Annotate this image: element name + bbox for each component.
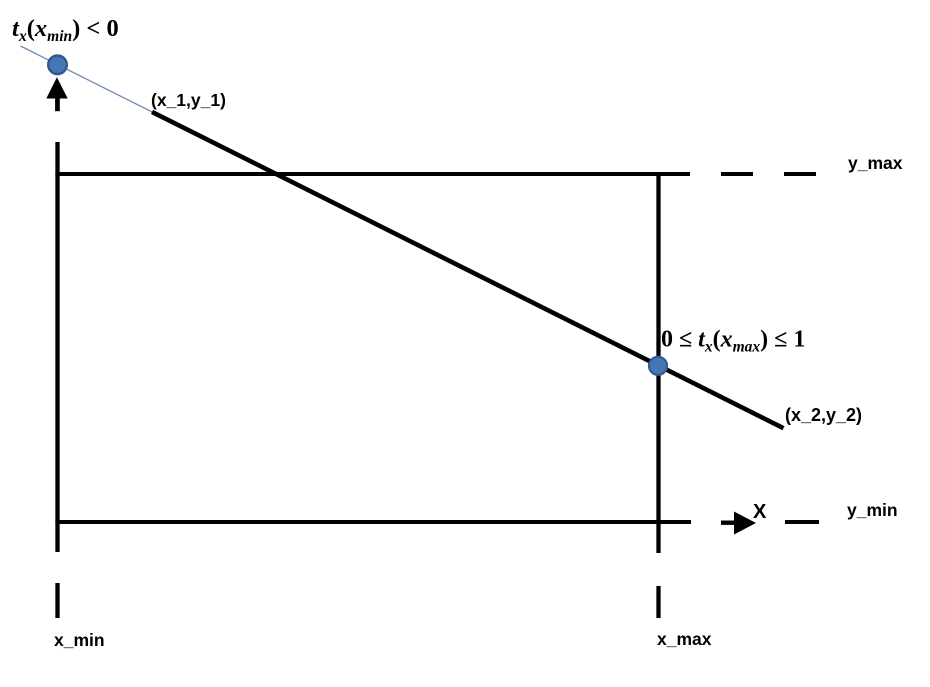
up arrow pointing at clipped intersection point on x_min xyxy=(46,77,67,111)
clip window top edge y_max (horizontal line) xyxy=(55,172,690,176)
blue point: intersection with x = x_max (0 <= t_x(x_max) <= 1) xyxy=(649,357,667,375)
svg-text:X: X xyxy=(753,501,767,523)
wire: thin blue extension of segment beyond window (t < 0 part) xyxy=(21,46,153,112)
clip window bottom edge y_min (horizontal line) xyxy=(55,520,691,524)
blue point: intersection with x = x_min extension (t_x(x_min) < 0) xyxy=(48,56,67,75)
svg-text:x_max: x_max xyxy=(657,629,712,649)
dashed continuation of y_max line xyxy=(721,172,816,176)
dashed continuation of x_max line below window xyxy=(656,586,660,618)
svg-text:(x_2,y_2): (x_2,y_2) xyxy=(785,405,862,425)
x-axis direction arrow near y_min dashed line xyxy=(721,512,756,535)
svg-text:y_max: y_max xyxy=(848,153,903,173)
dashed continuation of y_min line (single dash after x arrow) xyxy=(785,520,819,524)
svg-text:y_min: y_min xyxy=(847,500,898,520)
clip window right edge x_max (vertical line) xyxy=(656,172,660,553)
clip window left edge x_min (vertical line) xyxy=(55,142,59,552)
svg-text:(x_1,y_1): (x_1,y_1) xyxy=(151,90,226,110)
dashed continuation of x_min line below window xyxy=(55,583,59,618)
svg-text:x_min: x_min xyxy=(54,630,105,650)
wire: thick line segment from (x_1,y_1) to (x_2,y_2) xyxy=(152,112,784,428)
